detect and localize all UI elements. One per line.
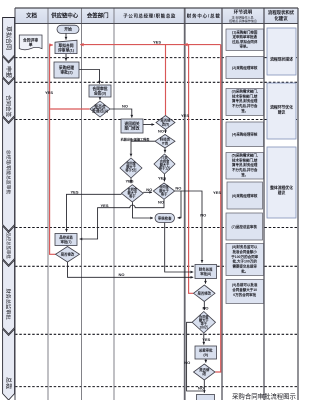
- svg-text:改(5): 改(5): [162, 121, 170, 126]
- red return wire: top horizontal into redraft shape right edge: [80, 44, 221, 46]
- svg-text:(4)采购经理审核: (4)采购经理审核: [232, 132, 258, 137]
- wire 财务总监审批→是否修改(8): [205, 279, 207, 284]
- svg-text:IT类: IT类: [162, 140, 169, 145]
- svg-text:批准合同金额小: 批准合同金额小: [232, 249, 257, 254]
- svg-text:部门修改: 部门修改: [124, 126, 139, 131]
- wire 品控审批后是否修改 NO→财务总监审批 left lower: [68, 262, 194, 277]
- decision 是否修改(8): [194, 285, 216, 302]
- svg-text:(6)采购经理审核: (6)采购经理审核: [232, 193, 258, 198]
- wire 金额判断 YES→总裁审批: [203, 333, 205, 345]
- red return wire: from 是否修改 diamond(7) left up to redraft shape: [50, 45, 56, 254]
- optimization box 1: [267, 28, 296, 75]
- terminator 归档: [197, 395, 215, 400]
- wire B2 NO fork→财务总监审批 top: [181, 191, 202, 263]
- svg-text:总裁审批: 总裁审批: [199, 348, 213, 353]
- rail chevron segment 1: 草拟合同: [3, 18, 15, 62]
- svg-text:批。: 批。: [241, 269, 248, 274]
- svg-text:总经理/职能总监审批: 总经理/职能总监审批: [5, 150, 12, 195]
- svg-text:YES: YES: [45, 90, 53, 95]
- red return wire: from 是否修改 diamond(5) top vertex: [165, 45, 167, 116]
- wire 科技类→IT类金额判断: [164, 148, 166, 153]
- lane divider dashed line 4: [15, 227, 298, 229]
- svg-text:评审单(1): 评审单(1): [58, 47, 75, 52]
- wire B2 bottom→品控总监审批 right (with hop): [80, 200, 164, 240]
- svg-text:(1)采购部门按固: (1)采购部门按固: [232, 30, 258, 35]
- column line: step-notes | optimization: [263, 8, 265, 400]
- svg-text:化建议: 化建议: [274, 15, 288, 22]
- svg-text:过后,草拟合同评: 过后,草拟合同评: [232, 39, 258, 44]
- svg-text:等于: 等于: [128, 194, 136, 199]
- wire 退回相关部门修改→是否修改(5): [143, 124, 154, 126]
- svg-text:不分先后,并行会: 不分先后,并行会: [232, 167, 258, 172]
- svg-text:财务中心/总裁: 财务中心/总裁: [186, 13, 221, 20]
- svg-text:等于: 等于: [160, 191, 168, 196]
- terminator 开始: [57, 25, 79, 33]
- svg-text:100万: 100万: [200, 325, 209, 330]
- wire 是否修改(8) NO→金额大于100万判断: [203, 302, 205, 311]
- wire 审核检查→财务总监审批 left upper: [165, 223, 194, 273]
- svg-text:NO: NO: [146, 187, 152, 192]
- column line: supply-chain | countersign: [81, 8, 83, 400]
- svg-text:NO: NO: [203, 305, 209, 310]
- wire IT类金额判断→下级判断: [163, 174, 165, 181]
- decision IT类合同金额大于等于1万: [154, 154, 175, 174]
- svg-text:NO: NO: [122, 103, 128, 108]
- svg-text:采购经理: 采购经理: [58, 65, 74, 70]
- svg-text:(9): (9): [203, 353, 208, 357]
- decision 机器设备类合同金额大于等于5万: [120, 158, 142, 178]
- optimization box 3: [267, 147, 296, 218]
- column line: doc | supply-chain: [47, 8, 49, 400]
- svg-text:审核检查: 审核检查: [158, 215, 172, 220]
- note box (1): [226, 29, 264, 51]
- svg-text:审批(8): 审批(8): [200, 271, 211, 276]
- rail chevron segment 6: 财务总监审批: [3, 260, 15, 334]
- process 财务总监审批(8): [195, 265, 217, 279]
- svg-text:流程现状和优: 流程现状和优: [268, 9, 295, 16]
- document 合同评审单: [19, 35, 42, 50]
- svg-text:会签(3): 会签(3): [94, 91, 107, 96]
- svg-text:合同会签: 合同会签: [4, 95, 12, 118]
- svg-text:NO: NO: [200, 212, 206, 217]
- svg-text:采购合同审批流程图示: 采购合同审批流程图示: [232, 392, 297, 400]
- svg-text:开始: 开始: [64, 27, 72, 32]
- svg-text:定申购单审批通: 定申购单审批通: [231, 34, 257, 39]
- red return wire: from 是否修改 diamond(10) right vertex: [215, 45, 221, 372]
- svg-text:YES: YES: [70, 190, 78, 195]
- svg-text:子公司总经理/职能总监: 子公司总经理/职能总监: [123, 13, 176, 20]
- svg-text:等于5万: 等于5万: [124, 168, 137, 173]
- wire A2 bottom→审核检查 oval left: [133, 202, 154, 218]
- process 品控总监审批(7): [55, 234, 77, 246]
- note box (2): [226, 57, 264, 79]
- svg-text:YES: YES: [202, 337, 210, 342]
- svg-text:草拟合同: 草拟合同: [58, 43, 73, 48]
- svg-text:技术审核部门,结: 技术审核部门,结: [232, 157, 258, 162]
- note box (7): [226, 213, 263, 240]
- table outer right border: [297, 8, 299, 400]
- svg-text:改: 改: [202, 371, 206, 376]
- svg-text:建议: 建议: [277, 110, 286, 115]
- svg-text:财务总监审批: 财务总监审批: [5, 288, 13, 319]
- wire 设备类金额判断→下级判断: [130, 178, 132, 183]
- svg-text:NO: NO: [184, 360, 190, 365]
- column line: finance | step-notes: [221, 8, 223, 400]
- svg-text:建议: 建议: [277, 190, 286, 195]
- lane divider dashed line 7: [15, 386, 298, 388]
- note box (3): [226, 89, 264, 116]
- rail chevron segment 3: 合同会签: [3, 78, 15, 122]
- wire 是否修改(5)→科技类: [165, 130, 167, 134]
- wire 是否会签通过 NO→退回相关部门修改: [110, 109, 132, 118]
- decision 合同金额大于等于100万(9): [192, 312, 215, 334]
- wire 品控总监审批→是否修改(7): [66, 245, 68, 247]
- wire 是否修改(10) NO→归档: [203, 380, 205, 393]
- svg-text:流程环节优化: 流程环节优化: [270, 105, 293, 110]
- note box (5): [226, 153, 264, 180]
- process 退回相关部门修改: [121, 119, 143, 133]
- svg-text:合同金额大于10: 合同金额大于10: [231, 287, 257, 292]
- svg-text:等于1万: 等于1万: [158, 166, 171, 171]
- svg-text:机器设备/基建工程类: 机器设备/基建工程类: [121, 136, 151, 141]
- svg-text:合同评审: 合同评审: [22, 38, 38, 43]
- wire B2 right NO→审核检查 oval right: [175, 191, 181, 218]
- svg-text:NO: NO: [198, 385, 204, 390]
- svg-text:文档: 文档: [26, 12, 37, 20]
- svg-text:需要提交总裁审: 需要提交总裁审: [232, 264, 257, 269]
- svg-text:(3)采购需求部门,: (3)采购需求部门,: [232, 89, 258, 94]
- svg-text:总裁: 总裁: [4, 377, 12, 389]
- svg-text:(7)品控总监审核: (7)品控总监审核: [232, 224, 258, 229]
- svg-text:签。: 签。: [240, 108, 248, 113]
- table header band: [15, 8, 298, 24]
- svg-text:草拟合同: 草拟合同: [4, 26, 12, 50]
- decision 是否会签通过(4): [90, 101, 110, 117]
- optimization box 2: [267, 83, 296, 139]
- wire A2→B2 NO: [143, 191, 152, 193]
- process 合同审批会签(3): [89, 85, 111, 97]
- wire 草拟合同评审单→采购经理审批: [65, 54, 67, 61]
- rail chevron segment 4: 总经理/职能总监审批: [3, 117, 15, 231]
- rail chevron segment 5: 品控总监审批: [3, 226, 15, 265]
- svg-text:整体流程优化: 整体流程优化: [269, 185, 293, 190]
- svg-text:0万的合同审批: 0万的合同审批: [233, 292, 256, 297]
- svg-text:NO: NO: [158, 129, 164, 134]
- svg-text:YES: YES: [100, 203, 108, 208]
- svg-text:(8)财务总监可以: (8)财务总监可以: [232, 244, 258, 249]
- svg-text:NO: NO: [158, 199, 164, 204]
- wire 总裁审批→是否修改(10): [205, 359, 207, 363]
- table outer top border: [15, 7, 298, 9]
- svg-text:(2)采购经理审核: (2)采购经理审核: [232, 65, 258, 70]
- decision B2 合同金额大于等于: [153, 183, 174, 199]
- svg-text:算专员,财务经理: 算专员,财务经理: [231, 162, 258, 167]
- lane divider dashed line 1 (draft/apply): [15, 57, 298, 59]
- svg-text:YES: YES: [125, 178, 133, 183]
- svg-text:于100万的合同审: 于100万的合同审: [231, 254, 258, 259]
- svg-text:(9)总裁可以批准: (9)总裁可以批准: [232, 282, 258, 287]
- column line: left table edge: [14, 8, 16, 400]
- terminator 审核检查: [155, 214, 175, 223]
- lane divider dashed line 5: [15, 265, 298, 267]
- note box (8): [226, 244, 264, 276]
- svg-text:不分先后,并行会: 不分先后,并行会: [232, 103, 258, 108]
- wire 开始→草拟合同评审单: [65, 33, 67, 39]
- note box (4): [226, 122, 264, 147]
- svg-text:YES: YES: [213, 190, 221, 195]
- rail chevron segment 7: 总裁审批: [3, 329, 15, 400]
- decision 是否修改(5): [156, 116, 175, 130]
- lane divider dashed line 6: [15, 333, 298, 335]
- lane divider dashed line 3: [15, 119, 298, 121]
- svg-text:签通过(4): 签通过(4): [91, 108, 109, 113]
- wire A2 left YES→品控总监审批 top: [67, 194, 122, 231]
- svg-text:退回相关: 退回相关: [124, 121, 139, 126]
- svg-text:品控总监审批: 品控总监审批: [5, 232, 12, 259]
- wire 合同审批会签→是否会签通过: [99, 97, 101, 100]
- red return wire: from 会签diamond(4) left vertex joining left riser: [50, 108, 89, 110]
- svg-text:技术审核部门,结: 技术审核部门,结: [232, 93, 258, 98]
- note box (6): [227, 182, 263, 209]
- svg-text:供应链中心: 供应链中心: [50, 12, 79, 20]
- red return wire mid arrowhead: [184, 44, 188, 46]
- svg-text:YES: YES: [158, 176, 166, 181]
- decision 是否修改(10): [194, 364, 216, 380]
- column line: GM | finance-center (heavy): [184, 8, 186, 400]
- svg-text:流程现状描述: 流程现状描述: [270, 57, 293, 62]
- red return wire: from 是否修改 diamond(8) left vertex: [189, 45, 194, 294]
- process 采购经理审批(2): [54, 62, 79, 78]
- svg-text:(5)采购需求部门,: (5)采购需求部门,: [232, 153, 258, 158]
- svg-text:YES: YES: [153, 40, 161, 45]
- svg-text:NO: NO: [119, 272, 125, 277]
- svg-text:YES: YES: [181, 113, 189, 118]
- svg-text:NO: NO: [175, 185, 181, 190]
- process 总裁审批(9): [195, 346, 217, 359]
- column line: countersign | GM: [113, 8, 115, 400]
- lane divider dashed line 2: [15, 81, 298, 83]
- decision 是否修改(7): [56, 247, 80, 263]
- svg-text:会签部门: 会签部门: [87, 12, 109, 20]
- svg-text:申报: 申报: [4, 66, 12, 78]
- svg-text:签。: 签。: [240, 172, 248, 177]
- svg-text:审批(7): 审批(7): [61, 239, 72, 244]
- svg-text:审批(2): 审批(2): [60, 70, 73, 75]
- svg-text:算专员,财务经理: 算专员,财务经理: [231, 98, 258, 103]
- decision 科技类: [155, 135, 175, 149]
- decision A2 合同金额大于等于: [121, 185, 143, 202]
- header bottom rule: [15, 23, 298, 25]
- rail chevron segment 2: 申报: [3, 57, 15, 84]
- svg-text:控制点,具体操作信息: 控制点,具体操作信息: [229, 18, 257, 23]
- process(manual) 草拟合同评审单(1): [55, 40, 77, 53]
- svg-text:是否修改: 是否修改: [60, 252, 75, 257]
- svg-text:单: 单: [29, 42, 33, 47]
- wire 科技类 left→机器设备类金额判断: [131, 141, 155, 156]
- svg-text:是否修改: 是否修改: [197, 291, 212, 296]
- wire 金额判断 NO 绕行到归档: [187, 322, 203, 391]
- note box (9): [226, 280, 264, 304]
- svg-text:审单。: 审单。: [239, 43, 250, 48]
- svg-text:财务总监: 财务总监: [198, 266, 213, 271]
- wire 采购经理审批→合同审批会签: [79, 70, 100, 84]
- svg-text:合同审批: 合同审批: [91, 86, 107, 91]
- svg-text:批,大于100万的: 批,大于100万的: [233, 259, 258, 264]
